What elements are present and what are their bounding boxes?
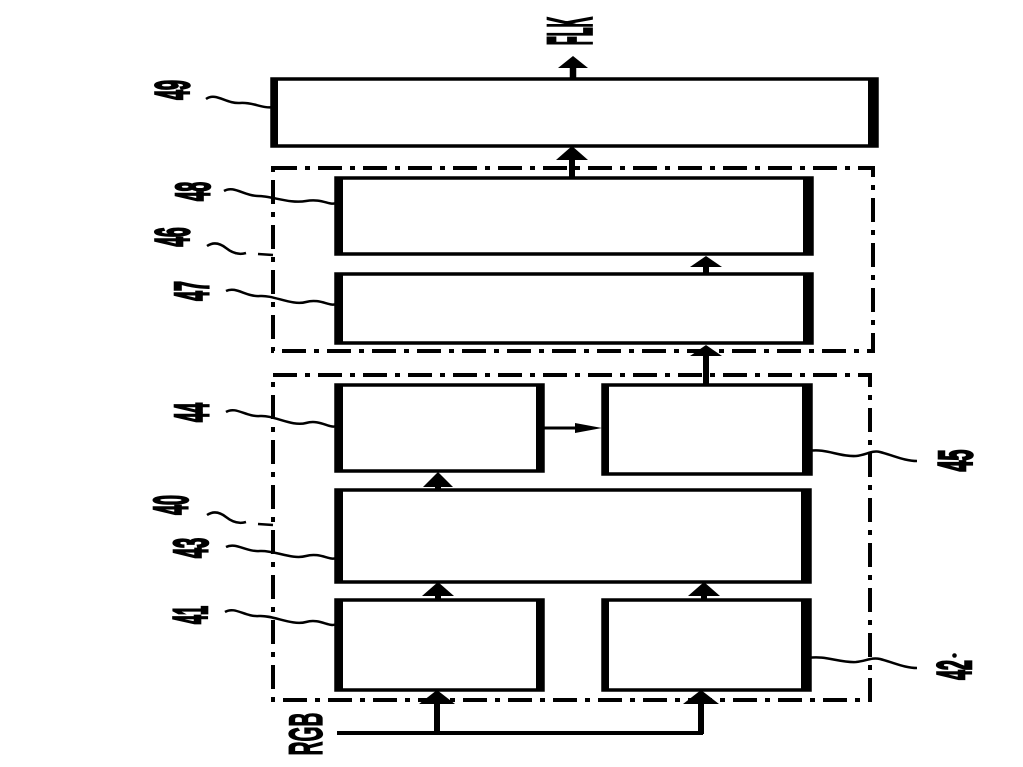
svg-text:42: 42	[927, 660, 981, 680]
leader line 42	[808, 657, 917, 668]
svg-text:45: 45	[929, 450, 983, 472]
svg-text:48: 48	[166, 182, 221, 201]
block 44	[336, 385, 543, 471]
arrow block 49 to FLK	[558, 56, 588, 80]
arrow RGB wire to block 41	[419, 690, 455, 734]
leader line 40	[207, 512, 246, 522]
dash-dot group box 46	[273, 168, 873, 351]
leader line 43	[226, 546, 336, 559]
block 48	[336, 178, 812, 254]
leader line 49	[206, 97, 274, 108]
RGB input wire	[337, 731, 703, 735]
dash-dot group box 40	[273, 375, 870, 700]
svg-text:41: 41	[164, 606, 218, 624]
arrow block 47 to block 48	[690, 256, 722, 275]
leader line 47	[226, 290, 336, 305]
svg-text:RGB: RGB	[279, 713, 333, 756]
block 47	[336, 274, 812, 343]
svg-text:43: 43	[164, 538, 218, 558]
arrow RGB wire to block 42	[683, 690, 719, 734]
arrow block 41 to block 43	[422, 582, 454, 601]
arrow block 42 to block 43	[688, 582, 720, 601]
leader line 46	[207, 243, 246, 253]
block 41	[336, 600, 543, 690]
leader line 48	[224, 189, 336, 203]
block 49	[272, 79, 877, 146]
arrow block 44 to block 45	[543, 423, 602, 433]
svg-text:FLK: FLK	[535, 17, 605, 45]
leader line 41	[225, 610, 336, 625]
arrow block 45 to block 47	[690, 345, 722, 386]
block 43	[336, 490, 810, 582]
svg-text:40: 40	[144, 495, 198, 515]
leader line 45	[809, 450, 917, 461]
block 42	[603, 600, 810, 690]
svg-text:46: 46	[145, 227, 200, 246]
arrow block 43 to block 44	[423, 472, 453, 491]
arrow block 48 to block 49	[556, 146, 588, 178]
svg-text:47: 47	[165, 281, 219, 301]
svg-text:49: 49	[145, 80, 199, 100]
block 45	[603, 385, 811, 474]
leader line 44	[226, 410, 336, 426]
svg-text:44: 44	[165, 403, 220, 422]
